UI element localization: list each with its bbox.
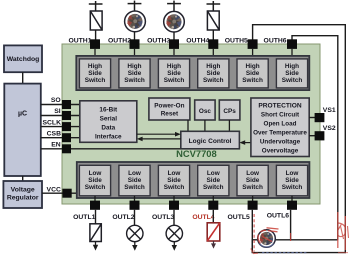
svg-text:Switch: Switch (124, 184, 145, 191)
wire motor M2 to pin OUTH3 (173, 32, 175, 40)
svg-text:Switch: Switch (242, 77, 263, 84)
svg-text:Switch: Switch (282, 184, 303, 191)
svg-text:OUTH6: OUTH6 (264, 38, 287, 45)
wire SCLK (41, 126, 80, 128)
svg-text:Switch: Switch (203, 77, 224, 84)
wire pin OUTL3 to lamp (173, 210, 175, 226)
wire CPs to logic control (228, 120, 230, 131)
svg-text:High: High (245, 63, 259, 70)
wire watchdog to uC (22, 72, 24, 83)
wire EN (runs to Logic Control) (41, 148, 181, 150)
svg-text:OUTH4: OUTH4 (186, 38, 209, 45)
pin OUTL3 (169, 201, 179, 210)
red tick at bottom-right rail corner (338, 252, 348, 254)
svg-text:Switch: Switch (242, 184, 263, 191)
svg-text:CSB: CSB (47, 130, 61, 137)
ground arrow OUTL1 (93, 242, 98, 251)
low side switch LS1 (79, 165, 110, 196)
svg-text:PROTECTION: PROTECTION (258, 103, 301, 110)
svg-text:High: High (285, 63, 299, 70)
svg-text:High: High (206, 63, 220, 70)
motor M2 (OUTH3) (164, 11, 185, 32)
motor M1 (OUTH2) (125, 11, 146, 32)
pin OUTL4 (208, 201, 218, 210)
red annotation scribbles over motor M3 (258, 228, 278, 244)
svg-text:Switch: Switch (164, 184, 185, 191)
svg-text:VS2: VS2 (323, 125, 336, 132)
svg-text:High: High (88, 63, 102, 70)
svg-text:SCLK: SCLK (42, 119, 61, 126)
svg-text:EN: EN (51, 142, 61, 149)
svg-text:Serial: Serial (100, 116, 118, 123)
wire pin OUTL4 to lamp (212, 210, 214, 223)
wire OUTH5 loop (outer, right side + bottom) (252, 25, 345, 253)
svg-text:Side: Side (167, 70, 181, 77)
svg-text:Side: Side (246, 177, 260, 184)
svg-text:Short Circuit: Short Circuit (261, 112, 300, 119)
wire bottom motor rail y=239.8 (252, 239, 337, 241)
svg-text:Side: Side (128, 70, 142, 77)
block 16-bit serial data interface (80, 101, 137, 143)
low side switch LS6 (276, 165, 307, 196)
arrow SPI to logic control (137, 132, 181, 137)
svg-text:µC: µC (18, 111, 27, 118)
svg-text:Switch: Switch (85, 184, 106, 191)
svg-text:Overvoltage: Overvoltage (262, 148, 299, 155)
svg-text:OUTL2: OUTL2 (112, 214, 134, 221)
svg-text:High: High (127, 63, 141, 70)
high-side switches container (76, 56, 309, 90)
svg-text:OUTH5: OUTH5 (225, 38, 248, 45)
supply bar T3 (167, 1, 181, 12)
pin OUTH5 (248, 39, 258, 49)
high side switch HS6 (276, 59, 307, 88)
pin VCC (62, 189, 71, 198)
svg-text:Side: Side (167, 177, 181, 184)
block Logic Control (181, 131, 240, 149)
ground arrow OUTL2 (132, 242, 137, 251)
pin SI (62, 111, 71, 120)
wires pins to high-side boxes (95, 49, 292, 59)
svg-text:Power-On: Power-On (154, 102, 184, 109)
lamp load OUTL4 (red annotated) (207, 223, 220, 241)
IC package panel (green) (62, 44, 320, 204)
block Voltage Regulator (3, 181, 42, 208)
lamp load OUTH1 (90, 11, 102, 30)
ground arrow OUTL3 (172, 242, 177, 251)
svg-text:Switch: Switch (203, 184, 224, 191)
pin SCLK (62, 122, 71, 131)
svg-text:Low: Low (89, 170, 102, 177)
svg-text:Watchdog: Watchdog (7, 56, 40, 63)
low-side switches container (77, 162, 310, 198)
motor M3 (between OUTL5/OUTL6) (258, 230, 276, 248)
svg-text:Switch: Switch (282, 77, 303, 84)
pin VS2 (315, 131, 325, 140)
wire lamp2 to pin OUTH4 (212, 30, 214, 40)
svg-text:Switch: Switch (164, 77, 185, 84)
pin OUTL6 (287, 201, 297, 210)
svg-text:OUTH3: OUTH3 (147, 38, 170, 45)
lamp load OUTL1 (90, 224, 101, 242)
wire pin OUTL2 to lamp (134, 210, 136, 226)
svg-text:Low: Low (246, 170, 259, 177)
wire lamp1 to pin OUTH1 (95, 30, 97, 40)
wire VS2 (309, 135, 315, 137)
arrow protection to logic control (239, 140, 251, 145)
wire OUTL5 vertical (251, 210, 253, 253)
ground arrow OUTL4 (211, 241, 216, 249)
svg-text:OUTL3: OUTL3 (152, 214, 174, 221)
low side switch LS3 (158, 165, 189, 196)
svg-text:Switch: Switch (124, 77, 145, 84)
pin EN (62, 144, 71, 153)
high side switch HS3 (158, 59, 189, 88)
svg-text:Side: Side (207, 177, 221, 184)
pin OUTH2 (130, 39, 140, 49)
svg-text:Voltage: Voltage (11, 187, 35, 194)
lamp load OUTL3 (circle-X) (166, 225, 182, 241)
svg-text:Regulator: Regulator (7, 195, 39, 202)
wire uC to voltage regulator (22, 176, 24, 181)
wire POR to logic control (187, 120, 189, 131)
block microcontroller uC (4, 84, 41, 176)
high side switch HS1 (79, 59, 110, 88)
svg-text:Low: Low (207, 170, 220, 177)
block Osc (195, 100, 215, 120)
pin OUTL5 (248, 201, 258, 210)
svg-text:VCC: VCC (47, 187, 61, 194)
svg-text:VS1: VS1 (323, 107, 336, 114)
supply bar T1 (89, 1, 103, 11)
pin OUTH1 (90, 39, 100, 49)
svg-text:OUTL1: OUTL1 (73, 214, 95, 221)
red annotation along OUTL5 wire (253, 214, 255, 252)
wires low-side boxes to bottom pins (95, 196, 292, 201)
svg-text:OUTL5: OUTL5 (228, 214, 250, 221)
low side switch LS2 (119, 165, 150, 196)
pin OUTL1 (90, 201, 100, 210)
supply bar T2 (128, 1, 142, 11)
svg-text:SO: SO (51, 97, 61, 104)
low side switch LS4 (198, 165, 229, 196)
svg-text:OUTL4: OUTL4 (192, 214, 214, 221)
svg-text:Side: Side (285, 177, 299, 184)
red tick at OUTL6 junction (290, 233, 292, 241)
block CPs (219, 100, 240, 120)
block Power-On Reset (149, 98, 190, 120)
red tick at bottom-left rail corner (251, 249, 258, 254)
lamp load OUTL2 (circle-X) (127, 225, 143, 241)
high side switch HS5 (237, 59, 268, 88)
pin OUTH3 (169, 39, 179, 49)
blue annotation scribbles under motor M3 (260, 244, 309, 253)
svg-text:Side: Side (246, 70, 260, 77)
low side switch LS5 (237, 165, 268, 196)
svg-text:Interface: Interface (95, 134, 122, 141)
svg-text:Reset: Reset (161, 110, 179, 117)
wire CSB (41, 137, 80, 139)
svg-text:Side: Side (128, 177, 142, 184)
lamp load OUTH4 (207, 11, 219, 30)
wire VCC (42, 192, 78, 194)
wire VS1 (309, 117, 315, 119)
pin CSB (62, 133, 71, 142)
svg-text:Side: Side (207, 70, 221, 77)
svg-text:OUTL6: OUTL6 (267, 213, 289, 220)
high side switch HS2 (119, 59, 150, 88)
pin VS1 (315, 113, 325, 122)
wire Osc to logic control (204, 120, 206, 131)
pin SO (62, 100, 71, 109)
wire motor M1 to pin OUTH2 (134, 32, 136, 40)
svg-text:Open Load: Open Load (264, 121, 297, 128)
svg-text:OUTH1: OUTH1 (68, 38, 91, 45)
wire OUTH6 loop (inner, right side) (292, 36, 338, 240)
block PROTECTION (251, 98, 309, 157)
svg-text:Low: Low (128, 170, 141, 177)
supply bar T4 (207, 1, 221, 11)
high side switch HS4 (198, 59, 229, 88)
svg-text:Undervoltage: Undervoltage (260, 139, 301, 146)
arrow logic control to SPI (137, 137, 181, 142)
red annotation over right-side wires (338, 212, 349, 250)
svg-text:Side: Side (285, 70, 299, 77)
wire OUTL6 vertical (290, 210, 292, 241)
svg-text:OUTH2: OUTH2 (108, 38, 131, 45)
svg-text:SI: SI (54, 108, 61, 115)
svg-text:16-Bit: 16-Bit (99, 107, 118, 114)
svg-text:Side: Side (88, 70, 102, 77)
wire SI (41, 115, 80, 117)
svg-text:Over Temperature: Over Temperature (253, 130, 307, 137)
svg-text:Logic Control: Logic Control (189, 138, 232, 145)
svg-text:NCV7708: NCV7708 (176, 148, 217, 159)
svg-text:Side: Side (88, 177, 102, 184)
svg-text:CPs: CPs (223, 108, 236, 115)
svg-text:Data: Data (101, 125, 115, 132)
wire SO (41, 104, 80, 106)
svg-text:High: High (167, 63, 181, 70)
svg-text:Osc: Osc (199, 108, 212, 115)
svg-text:Switch: Switch (85, 77, 106, 84)
pin OUTL2 (130, 201, 140, 210)
svg-text:Low: Low (286, 170, 299, 177)
pin OUTH6 (287, 39, 297, 49)
pin OUTH4 (208, 39, 218, 49)
svg-text:Low: Low (168, 170, 181, 177)
block Watchdog (4, 45, 42, 72)
wire pin OUTL1 to lamp (95, 210, 97, 224)
